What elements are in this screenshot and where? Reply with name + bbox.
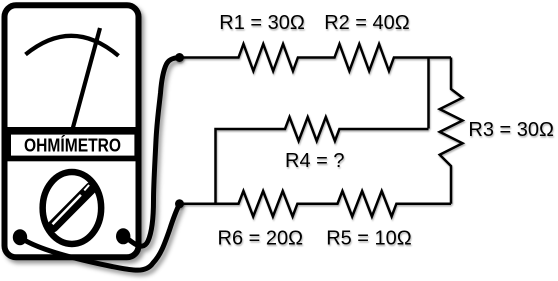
svg-text:R6 = 20Ω: R6 = 20Ω xyxy=(218,227,304,249)
svg-text:R1 = 30Ω: R1 = 30Ω xyxy=(219,12,305,34)
svg-text:OHMÍMETRO: OHMÍMETRO xyxy=(24,134,121,155)
svg-text:R2 = 40Ω: R2 = 40Ω xyxy=(324,12,410,34)
svg-text:R3 = 30Ω: R3 = 30Ω xyxy=(468,119,554,141)
svg-text:R4 = ?: R4 = ? xyxy=(285,150,344,172)
svg-text:R5 = 10Ω: R5 = 10Ω xyxy=(326,227,412,249)
